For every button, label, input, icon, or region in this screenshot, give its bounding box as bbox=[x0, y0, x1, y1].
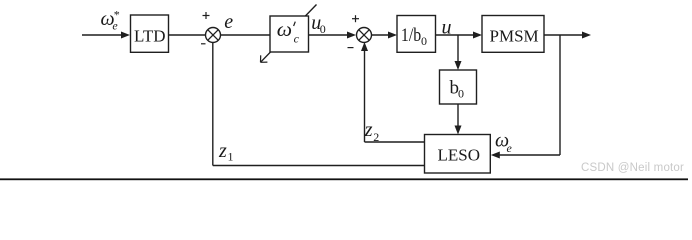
svg-text:ω: ω bbox=[277, 19, 292, 41]
svg-text:0: 0 bbox=[421, 34, 427, 48]
svg-text:e: e bbox=[224, 11, 233, 33]
svg-text:CSDN @Neil motor: CSDN @Neil motor bbox=[581, 162, 684, 174]
svg-text:z: z bbox=[364, 119, 373, 141]
svg-text:1: 1 bbox=[228, 150, 234, 164]
svg-text:z: z bbox=[218, 140, 227, 162]
svg-text:c: c bbox=[294, 32, 300, 46]
svg-text:LTD: LTD bbox=[134, 26, 166, 45]
svg-text:2: 2 bbox=[373, 130, 379, 144]
svg-text:0: 0 bbox=[320, 22, 326, 36]
svg-text:u: u bbox=[442, 17, 452, 39]
svg-text:e: e bbox=[507, 141, 513, 155]
svg-text:0: 0 bbox=[458, 87, 464, 101]
svg-text:e: e bbox=[112, 19, 118, 33]
svg-text:PMSM: PMSM bbox=[490, 26, 539, 45]
svg-text:1/b: 1/b bbox=[401, 25, 421, 46]
svg-text:LESO: LESO bbox=[438, 145, 481, 164]
